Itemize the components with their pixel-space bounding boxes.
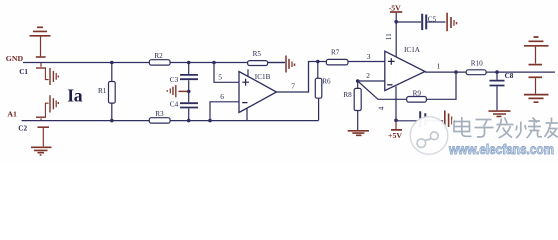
node dot pin5 rail bbox=[212, 61, 216, 65]
svg-text:R7: R7 bbox=[331, 49, 340, 57]
svg-text:R9: R9 bbox=[413, 89, 422, 97]
ground G8 after C6 (pointing right) bbox=[445, 111, 455, 131]
wire IC1A output bbox=[425, 71, 466, 73]
node dot -5V branch bbox=[394, 20, 398, 24]
wire C3/C4 column bbox=[188, 63, 190, 121]
svg-text:R2: R2 bbox=[154, 52, 163, 60]
svg-text:C5: C5 bbox=[428, 15, 437, 23]
svg-text:R1: R1 bbox=[98, 87, 107, 95]
resistor R7 bbox=[326, 59, 348, 65]
node dot C8 bbox=[495, 70, 499, 74]
svg-text:4: 4 bbox=[376, 106, 385, 110]
svg-text:www.elecfans.com: www.elecfans.com bbox=[448, 142, 554, 157]
watermark text 电子发烧友 (approximated strokes) bbox=[454, 117, 558, 138]
node dot R6 top bbox=[316, 60, 320, 64]
svg-text:7: 7 bbox=[291, 82, 295, 91]
wire pin2 bbox=[358, 80, 385, 82]
op-amp U IC1A bbox=[385, 51, 425, 120]
ground G5 under R8 bbox=[348, 131, 369, 136]
resistor R6 bbox=[315, 62, 322, 121]
node dot C3 top bbox=[187, 61, 191, 65]
svg-text:R3: R3 bbox=[155, 110, 164, 118]
wire C5 to ground bbox=[427, 21, 445, 23]
svg-text:+5V: +5V bbox=[388, 131, 402, 140]
svg-text:6: 6 bbox=[220, 92, 224, 101]
wire bottom rail A1 bbox=[22, 120, 319, 122]
ground G10 bottom-right below output wire bbox=[524, 77, 549, 102]
svg-text:Ia: Ia bbox=[67, 86, 82, 106]
wire R7 to pin3 bbox=[348, 61, 385, 63]
ground G1 top-left earth symbol bbox=[30, 27, 51, 57]
ground G6 after C5 (pointing right) bbox=[447, 13, 456, 32]
node dot +5V bbox=[394, 119, 398, 123]
watermark logo disc bbox=[410, 117, 448, 155]
power +5V symbol bbox=[391, 120, 402, 130]
svg-text:C1: C1 bbox=[19, 68, 28, 76]
svg-text:2: 2 bbox=[366, 71, 370, 80]
resistor R8 bbox=[354, 81, 361, 130]
wire IC1B output to top bbox=[277, 62, 327, 93]
capacitor C1 bbox=[36, 63, 58, 85]
node dot C4 bottom bbox=[187, 119, 191, 123]
svg-text:R10: R10 bbox=[471, 60, 483, 68]
wire C6 to ground bbox=[426, 120, 443, 122]
capacitor C3 bbox=[180, 75, 198, 79]
capacitor C8 bbox=[490, 72, 505, 110]
svg-text:R8: R8 bbox=[343, 91, 352, 99]
svg-text:11: 11 bbox=[384, 33, 393, 40]
capacitor C6 bbox=[420, 111, 425, 127]
capacitor C5 bbox=[422, 14, 426, 30]
烧 bbox=[516, 118, 542, 139]
resistor R3 bbox=[149, 118, 170, 123]
resistor R10 bbox=[466, 70, 486, 75]
ground G3 at C3/C4 midpoint (pointing left) bbox=[167, 85, 188, 97]
ground G7 under C8 bbox=[489, 111, 511, 116]
svg-text:-5V: -5V bbox=[389, 4, 401, 13]
node dot C3/C4 mid bbox=[187, 90, 191, 94]
发 bbox=[497, 118, 514, 139]
svg-text:R6: R6 bbox=[322, 78, 331, 86]
svg-text:C3: C3 bbox=[170, 76, 179, 84]
svg-text:3: 3 bbox=[367, 52, 371, 61]
resistor R1 bbox=[109, 63, 116, 120]
svg-text:GND: GND bbox=[6, 54, 24, 63]
svg-text:R5: R5 bbox=[253, 50, 262, 58]
op-amp U IC1B bbox=[239, 69, 277, 120]
node dot pin2 bbox=[356, 79, 360, 83]
svg-text:5: 5 bbox=[218, 73, 222, 82]
wire +5V to C6 bbox=[396, 120, 419, 122]
svg-text:IC1B: IC1B bbox=[255, 73, 271, 81]
ground G4 after R5 (pointing right) bbox=[286, 56, 295, 73]
resistor R9 bbox=[407, 97, 427, 103]
node dot pin6 rail bbox=[208, 119, 212, 123]
wire R5 right lead bbox=[268, 62, 285, 64]
resistor R2 bbox=[149, 60, 170, 65]
node dot R1 top bbox=[110, 61, 114, 65]
capacitor C4 bbox=[180, 103, 198, 107]
node dot feedback bbox=[454, 70, 458, 74]
svg-text:C8: C8 bbox=[505, 72, 514, 80]
wire R9 right to output bbox=[426, 72, 456, 99]
wire -5V to C5 bbox=[396, 21, 421, 23]
ground G2 bottom-left bbox=[31, 127, 52, 155]
svg-text:1: 1 bbox=[437, 61, 441, 70]
power -5V symbol bbox=[390, 12, 402, 57]
wire pin6 jog bbox=[210, 102, 239, 121]
ground G9 top-right above output wire bbox=[524, 37, 549, 65]
svg-text:IC1A: IC1A bbox=[404, 46, 421, 54]
node dot R1 bottom bbox=[110, 119, 114, 123]
svg-text:C2: C2 bbox=[18, 125, 27, 133]
wire output to right edge bbox=[486, 71, 555, 73]
wire top rail GND bbox=[23, 62, 285, 64]
resistor R5 bbox=[248, 61, 268, 66]
wire pin5 jog bbox=[214, 63, 239, 83]
wire R9 diagonal from pin2 node bbox=[358, 81, 407, 99]
svg-text:A1: A1 bbox=[7, 110, 17, 119]
子 bbox=[475, 120, 494, 137]
电 bbox=[454, 117, 472, 136]
友 bbox=[545, 118, 558, 139]
capacitor C2 bbox=[36, 95, 58, 120]
svg-text:C4: C4 bbox=[170, 101, 179, 109]
